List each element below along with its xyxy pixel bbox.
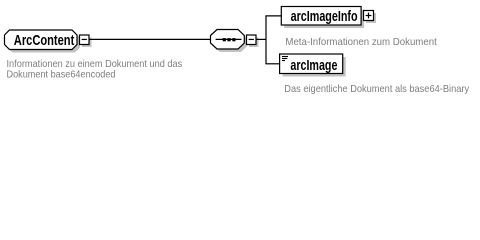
sequence compositor symbol [211,30,248,53]
svg-text:Meta-Informationen zum Dokumen: Meta-Informationen zum Dokument [285,36,436,48]
wire branch to arcImageInfo [265,15,281,17]
svg-text:Dokument base64encoded: Dokument base64encoded [7,68,116,80]
wire from ArcContent to sequence compositor [89,38,211,40]
wire branch to arcImage [265,63,279,65]
svg-text:Das eigentliche Dokument als b: Das eigentliche Dokument als base64-Bina… [284,83,469,95]
expand plus box on arcImageInfo [364,11,377,24]
wire from sequence minus box to branch trunk [256,38,266,40]
element box ArcContent (root element, expanded) [5,30,81,53]
svg-text:arcImage: arcImage [290,57,337,74]
svg-text:arcImageInfo: arcImageInfo [291,8,358,25]
element box arcImageInfo (collapsed child element) [281,7,364,29]
svg-text:ArcContent: ArcContent [14,32,75,49]
expand/collapse minus box on sequence [247,35,259,47]
element box arcImage (simple content element) [280,54,346,77]
vertical trunk wire [265,16,267,64]
expand/collapse minus box on ArcContent [80,35,92,47]
